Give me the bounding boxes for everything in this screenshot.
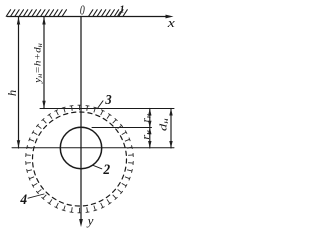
svg-text:x: x: [167, 16, 176, 30]
svg-text:3: 3: [104, 91, 112, 107]
svg-text:1: 1: [120, 4, 125, 15]
svg-text:2: 2: [102, 161, 110, 178]
y-axis: [80, 17, 82, 221]
svg-text:rн: rн: [141, 130, 152, 140]
extension line at depth y_n (top of d_n): [40, 108, 174, 110]
svg-text:h: h: [5, 90, 19, 96]
leader of label 3: [97, 101, 103, 109]
dimension d_n line: [170, 109, 172, 149]
x-axis arrowhead: [166, 15, 174, 19]
tunnel circle 2: [60, 127, 101, 168]
hachure ticks around dashed circle: [26, 105, 134, 213]
leader of label 2: [93, 165, 102, 169]
dimension y_n line: [43, 17, 45, 109]
ground hatching: [6, 10, 127, 17]
horizontal centre line: [12, 147, 174, 149]
svg-text:0: 0: [80, 3, 85, 18]
dimension r_n line: [149, 109, 151, 149]
svg-text:ун=h+dн: ун=h+dн: [34, 43, 44, 84]
leader of label 4: [28, 194, 44, 198]
dashed outer circle 4: [33, 112, 127, 206]
leader of label 1: [118, 12, 121, 17]
extension line at top of tunnel circle: [92, 127, 152, 129]
ground surface line with x-axis: [8, 16, 169, 18]
svg-text:y: y: [86, 213, 94, 228]
svg-text:4: 4: [19, 192, 27, 209]
y-axis arrowhead: [79, 219, 83, 227]
dimension h line: [18, 17, 20, 149]
svg-text:rн: rн: [142, 114, 153, 122]
